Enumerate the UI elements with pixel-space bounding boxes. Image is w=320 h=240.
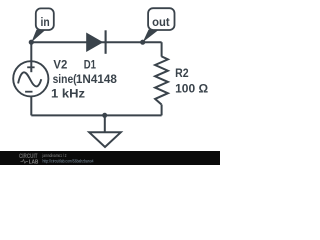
wire right vertical upper (to R2) [161,42,163,56]
svg-text:out: out [152,15,170,29]
svg-text:1N4148: 1N4148 [76,72,117,86]
node in junction dot [29,40,34,45]
svg-text:100 Ω: 100 Ω [175,81,208,95]
svg-text:LAB: LAB [29,160,39,165]
ground symbol [89,132,121,147]
voltage source V2 body [13,61,48,96]
sine glyph [18,72,41,86]
watermark bar [0,151,220,166]
svg-text:R2: R2 [175,66,189,80]
ground stub wire [104,115,106,132]
wire bottom horizontal [31,114,161,116]
wire left vertical (into source, + lead) [30,42,32,72]
voltage source V2 marks [18,67,41,91]
minus tick [25,91,32,93]
svg-text:sine(: sine( [53,72,77,86]
svg-text:1 kHz: 1 kHz [51,86,85,100]
wire left vertical lower (source - lead to bottom rail) [30,96,32,115]
svg-text:D1: D1 [84,58,96,72]
flag in [31,8,54,42]
resistor R2 [155,56,168,104]
svg-text:V2: V2 [53,58,67,72]
wire top horizontal [31,41,161,43]
node out junction dot [140,40,145,45]
ground junction dot [102,113,107,118]
diode D1 [86,30,105,54]
wire right vertical lower (from R2) [161,105,163,116]
svg-text:http://circuitlab.com/56bahzba: http://circuitlab.com/56bahzbano4 [43,158,94,163]
svg-text:in: in [41,15,50,29]
flag out [143,8,175,42]
plus tick [27,66,34,68]
svg-text:jamndivams1 / 2: jamndivams1 / 2 [42,153,67,158]
